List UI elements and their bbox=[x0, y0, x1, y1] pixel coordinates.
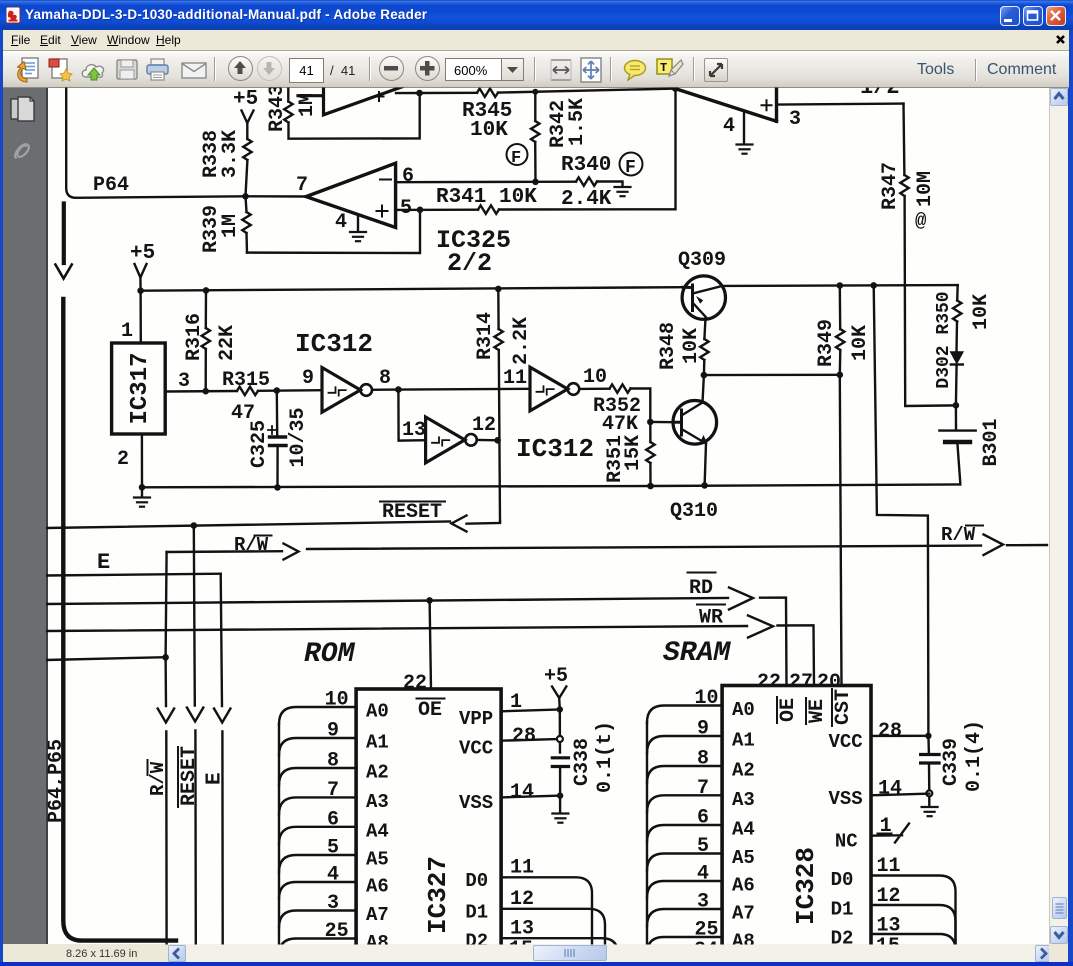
wire RESET line + arrow left bbox=[46, 522, 450, 529]
svg-text:VPP: VPP bbox=[459, 708, 493, 730]
svg-text:R315: R315 bbox=[222, 369, 270, 392]
svg-text:IC312: IC312 bbox=[295, 329, 373, 359]
svg-text:R343: R343 bbox=[266, 84, 289, 132]
wire pin 8 A2 IC328 bbox=[647, 766, 722, 783]
svg-text:P64: P64 bbox=[93, 174, 129, 197]
node CST rotated bbox=[832, 689, 855, 726]
svg-text:0.1(4): 0.1(4) bbox=[963, 720, 986, 792]
svg-text:7: 7 bbox=[327, 779, 339, 802]
svg-text:+5: +5 bbox=[130, 242, 155, 265]
battery B301 bbox=[955, 405, 957, 428]
svg-text:0.1(t): 0.1(t) bbox=[594, 721, 617, 793]
wire collector bus right bbox=[725, 284, 958, 287]
svg-text:D2: D2 bbox=[831, 928, 854, 950]
svg-text:F: F bbox=[625, 158, 636, 178]
svg-text:ROM: ROM bbox=[304, 639, 356, 670]
svg-text:6: 6 bbox=[402, 165, 414, 188]
svg-text:A1: A1 bbox=[366, 732, 389, 754]
node F circle 2 bbox=[620, 153, 643, 176]
wire P64 vertical entry from top bbox=[66, 87, 76, 198]
node junction vertex bbox=[672, 85, 679, 92]
svg-text:3: 3 bbox=[178, 370, 190, 393]
svg-text:A7: A7 bbox=[732, 903, 755, 925]
svg-text:4: 4 bbox=[327, 864, 339, 887]
node junction bbox=[416, 90, 423, 97]
wire Q310 collector junction bbox=[701, 372, 708, 379]
svg-text:A4: A4 bbox=[366, 820, 389, 842]
wire OE drop IC327 bbox=[430, 600, 431, 689]
ground R340 bbox=[615, 187, 631, 196]
svg-text:IC317: IC317 bbox=[127, 352, 154, 424]
svg-text:+5: +5 bbox=[233, 88, 258, 111]
svg-text:1: 1 bbox=[121, 320, 133, 343]
wire CST drop bbox=[840, 375, 842, 686]
svg-text:A5: A5 bbox=[732, 847, 755, 869]
svg-text:24: 24 bbox=[694, 939, 718, 962]
resistor R349 bbox=[839, 286, 842, 330]
svg-text:R316: R316 bbox=[183, 313, 206, 361]
resistor R339 bbox=[242, 193, 249, 200]
svg-text:7: 7 bbox=[296, 174, 308, 197]
svg-text:A6: A6 bbox=[366, 876, 389, 898]
svg-text:A2: A2 bbox=[366, 762, 389, 784]
svg-text:10K: 10K bbox=[470, 119, 508, 142]
svg-text:RESET: RESET bbox=[382, 501, 442, 524]
svg-text:R348: R348 bbox=[657, 322, 680, 370]
svg-text:WR: WR bbox=[699, 607, 723, 630]
svg-text:2/2: 2/2 bbox=[447, 249, 492, 278]
svg-text:D1: D1 bbox=[465, 901, 488, 923]
svg-text:4: 4 bbox=[697, 863, 709, 886]
svg-text:A4: A4 bbox=[732, 819, 755, 841]
svg-text:OE: OE bbox=[777, 698, 800, 722]
svg-text:B301: B301 bbox=[980, 418, 1003, 466]
wire pin 8 A2 IC327 bbox=[279, 768, 356, 785]
svg-text:8: 8 bbox=[697, 748, 709, 771]
wire pin 10 A0 IC328 bbox=[647, 706, 722, 723]
svg-text:VSS: VSS bbox=[459, 792, 493, 814]
svg-text:10: 10 bbox=[583, 366, 607, 389]
wire thick arrow stub bbox=[62, 204, 66, 264]
svg-text:D302 R350: D302 R350 bbox=[934, 291, 954, 388]
svg-text:A2: A2 bbox=[732, 760, 755, 782]
svg-text:1.5K: 1.5K bbox=[566, 98, 589, 146]
svg-text:5: 5 bbox=[697, 835, 709, 858]
ground C338 bbox=[552, 814, 568, 823]
svg-text:Q310: Q310 bbox=[670, 500, 718, 523]
wire pin 10 A0 IC327 bbox=[279, 707, 356, 724]
wire pin 6 A4 IC328 bbox=[647, 825, 722, 842]
node F circle 1 bbox=[507, 144, 528, 165]
svg-text:A0: A0 bbox=[366, 701, 389, 723]
resistor R314 bbox=[497, 289, 500, 329]
resistor R343 bbox=[287, 87, 289, 102]
svg-text:R/W: R/W bbox=[941, 524, 976, 546]
diode D302 bbox=[951, 352, 963, 363]
wire pin 9 A1 IC328 bbox=[647, 736, 722, 753]
svg-text:15K: 15K bbox=[622, 435, 645, 471]
svg-text:10K: 10K bbox=[849, 325, 872, 361]
svg-text:WE: WE bbox=[806, 699, 829, 723]
horizontal scrollbar bbox=[3, 944, 1049, 962]
resistor R341 bbox=[396, 208, 478, 211]
wire pin 25 A8 IC327 bbox=[279, 939, 356, 956]
wire pin6 bbox=[396, 181, 536, 184]
svg-text:RESET: RESET bbox=[178, 746, 201, 806]
svg-text:10: 10 bbox=[695, 687, 719, 710]
resistor R352 bbox=[579, 388, 609, 391]
svg-text:RD: RD bbox=[689, 577, 713, 600]
wire gate1 out bbox=[372, 389, 530, 390]
ground C339 bbox=[922, 807, 938, 816]
svg-text:C325: C325 bbox=[248, 420, 271, 468]
svg-text:15: 15 bbox=[876, 935, 900, 958]
svg-text:3.3K: 3.3K bbox=[219, 130, 242, 178]
svg-text:A7: A7 bbox=[366, 904, 389, 926]
inverter gate IC312a pins 9/8 bbox=[322, 368, 360, 413]
wire +5 bus horizontal bbox=[141, 287, 683, 291]
wire Q310 base bbox=[647, 419, 654, 426]
svg-text:+5: +5 bbox=[544, 665, 568, 688]
svg-text:VCC: VCC bbox=[459, 738, 493, 760]
svg-text:NC: NC bbox=[835, 831, 858, 853]
svg-text:5: 5 bbox=[400, 197, 412, 220]
wire gate2 out bbox=[477, 439, 498, 442]
wire feedback to pin5 bbox=[247, 210, 420, 253]
wire ROM address bus bbox=[278, 724, 280, 944]
resistor R342 bbox=[532, 89, 538, 95]
svg-text:D1: D1 bbox=[831, 899, 854, 921]
wire bottom stub line bbox=[46, 657, 166, 660]
svg-text:Q309: Q309 bbox=[678, 249, 726, 272]
svg-text:3: 3 bbox=[327, 892, 339, 915]
svg-text:9: 9 bbox=[697, 718, 709, 741]
svg-text:28: 28 bbox=[878, 720, 902, 743]
wire pin 7 A3 IC328 bbox=[647, 795, 722, 812]
wire pin 5 A5 IC327 bbox=[279, 855, 356, 872]
resistor R316 bbox=[205, 290, 208, 328]
svg-text:A1: A1 bbox=[732, 730, 755, 752]
svg-text:12: 12 bbox=[472, 414, 496, 437]
svg-text:3: 3 bbox=[789, 108, 801, 131]
ground IC325 pin4 bbox=[350, 232, 366, 241]
wire pin 6 A4 IC327 bbox=[279, 827, 356, 844]
node OE rotated bbox=[777, 697, 800, 723]
svg-text:2: 2 bbox=[117, 448, 129, 471]
svg-text:27: 27 bbox=[789, 671, 813, 694]
svg-text:A8: A8 bbox=[366, 932, 389, 954]
svg-text:@: @ bbox=[915, 210, 927, 232]
wire to gate2 input bbox=[398, 390, 425, 441]
svg-text:12: 12 bbox=[510, 888, 534, 911]
svg-text:A8: A8 bbox=[732, 931, 755, 953]
title bar bbox=[0, 0, 1073, 30]
wire RD line bbox=[46, 598, 728, 604]
svg-text:7: 7 bbox=[697, 777, 709, 800]
svg-text:A3: A3 bbox=[366, 791, 389, 813]
svg-text:10: 10 bbox=[325, 689, 349, 712]
svg-text:D0: D0 bbox=[831, 869, 854, 891]
svg-text:1/2: 1/2 bbox=[860, 75, 900, 100]
svg-text:10K: 10K bbox=[970, 294, 993, 330]
wire pin 4 A6 IC327 bbox=[279, 882, 356, 899]
resistor R350 bbox=[956, 285, 959, 300]
svg-text:R341 10K: R341 10K bbox=[436, 186, 537, 209]
IC U-IC328 SRAM box bbox=[722, 686, 871, 951]
resistor R347 bbox=[902, 104, 905, 175]
ground op-amp pin4 bbox=[737, 145, 753, 154]
svg-text:R314: R314 bbox=[474, 312, 497, 360]
svg-text:1M: 1M bbox=[219, 214, 242, 238]
wire P64 horizontal bbox=[76, 196, 306, 198]
svg-text:22K: 22K bbox=[216, 325, 239, 361]
wire P64/P65 thick bus left bbox=[63, 299, 176, 941]
node WE rotated bbox=[806, 698, 829, 724]
svg-text:14: 14 bbox=[510, 781, 534, 804]
wire E vertical down bbox=[221, 574, 222, 706]
wire output top op-amp bbox=[396, 92, 420, 94]
svg-text:10K: 10K bbox=[680, 328, 703, 364]
IC U-IC327 ROM box bbox=[356, 689, 501, 951]
capacitor C338 bbox=[552, 758, 568, 767]
wire pin 3 A7 IC327 bbox=[279, 911, 356, 928]
svg-text:3: 3 bbox=[697, 891, 709, 914]
menu bar bbox=[3, 30, 1069, 51]
svg-text:P64,P65: P64,P65 bbox=[45, 739, 68, 823]
svg-text:R347: R347 bbox=[879, 162, 902, 210]
op-amp U-top partial bbox=[298, 87, 403, 115]
svg-text:25: 25 bbox=[325, 920, 349, 943]
svg-text:4: 4 bbox=[335, 211, 347, 234]
svg-text:C338: C338 bbox=[571, 738, 594, 786]
svg-text:8: 8 bbox=[379, 367, 391, 390]
resistor R340 bbox=[536, 180, 577, 183]
svg-text:IC327: IC327 bbox=[423, 856, 453, 934]
svg-text:R/W: R/W bbox=[234, 534, 269, 556]
svg-text:A6: A6 bbox=[732, 875, 755, 897]
svg-text:13: 13 bbox=[402, 419, 426, 442]
svg-text:9: 9 bbox=[302, 367, 314, 390]
svg-text:22: 22 bbox=[403, 672, 427, 695]
svg-text:SRAM: SRAM bbox=[663, 638, 731, 669]
svg-text:5: 5 bbox=[327, 837, 339, 860]
op-amp U-right partial 1/2 bbox=[675, 86, 776, 121]
svg-text:R340: R340 bbox=[561, 154, 611, 177]
svg-text:E: E bbox=[204, 772, 227, 785]
wire pin 9 A1 IC327 bbox=[279, 738, 356, 755]
svg-text:VCC: VCC bbox=[829, 731, 863, 753]
wire WR line bbox=[46, 626, 747, 631]
svg-text:OE: OE bbox=[418, 699, 442, 722]
svg-text:2.4K: 2.4K bbox=[561, 188, 612, 211]
node arrow down P64 bbox=[55, 265, 71, 279]
svg-text:IC328: IC328 bbox=[791, 847, 821, 925]
svg-text:14: 14 bbox=[878, 778, 902, 801]
svg-text:28: 28 bbox=[512, 725, 536, 748]
svg-text:11: 11 bbox=[503, 367, 527, 390]
svg-text:10/35: 10/35 bbox=[287, 407, 310, 467]
resistor R338 bbox=[246, 123, 248, 139]
svg-text:9: 9 bbox=[327, 720, 339, 743]
op-amp IC325 bbox=[306, 163, 396, 227]
svg-text:D2: D2 bbox=[465, 931, 488, 953]
wire emitter/ground long line bbox=[142, 484, 960, 487]
svg-text:6: 6 bbox=[327, 808, 339, 831]
svg-text:D0: D0 bbox=[465, 870, 488, 892]
svg-text:15: 15 bbox=[509, 938, 533, 961]
inverter gate IC312b pins 13/12 bbox=[426, 417, 465, 463]
svg-text:A5: A5 bbox=[366, 849, 389, 871]
resistor R351 bbox=[649, 422, 652, 442]
wire pin 5 A5 IC328 bbox=[647, 854, 722, 871]
ground IC317 pin2 bbox=[134, 498, 150, 507]
resistor R348 bbox=[704, 318, 705, 339]
svg-text:4: 4 bbox=[723, 115, 735, 138]
wire R/W vertical down bbox=[166, 552, 167, 706]
wire RESET vertical down bbox=[194, 526, 195, 706]
wire pin 25 A8 IC328 bbox=[647, 937, 722, 954]
svg-text:10M: 10M bbox=[914, 171, 937, 207]
svg-text:VSS: VSS bbox=[829, 788, 863, 810]
node R/W rotated label bbox=[147, 760, 169, 796]
resistor R345 bbox=[420, 92, 478, 95]
inverter gate IC312c pins 11/10 bbox=[530, 367, 568, 411]
svg-text:R/W: R/W bbox=[147, 761, 169, 796]
wire pin 3 A7 IC328 bbox=[647, 909, 722, 926]
wire pin 7 A3 IC327 bbox=[279, 797, 356, 814]
capacitor C325 bbox=[276, 391, 279, 488]
sidebar bbox=[3, 88, 48, 944]
vertical scrollbar bbox=[1049, 88, 1068, 944]
node P64,P65 rotated label bbox=[45, 739, 68, 823]
svg-text:R349: R349 bbox=[815, 319, 838, 367]
wire pin 4 A6 IC328 bbox=[647, 881, 722, 898]
svg-text:11: 11 bbox=[510, 857, 534, 880]
svg-text:IC312: IC312 bbox=[516, 434, 594, 464]
node RESET rotated label bbox=[178, 746, 201, 807]
svg-text:CST: CST bbox=[832, 689, 855, 725]
node E rotated label bbox=[204, 772, 227, 785]
svg-text:47K: 47K bbox=[602, 413, 638, 436]
IC317 box bbox=[112, 343, 166, 434]
toolbar bbox=[3, 51, 1069, 88]
svg-text:A0: A0 bbox=[732, 699, 755, 721]
wire right riser to VCC bbox=[874, 285, 929, 735]
svg-text:A3: A3 bbox=[732, 789, 755, 811]
wire pin1 IC317 bbox=[139, 291, 142, 343]
svg-text:6: 6 bbox=[697, 807, 709, 830]
svg-text:E: E bbox=[97, 550, 110, 575]
svg-text:F: F bbox=[511, 149, 521, 168]
svg-text:C339: C339 bbox=[940, 738, 963, 786]
svg-text:2.2K: 2.2K bbox=[510, 317, 533, 365]
svg-text:22: 22 bbox=[757, 671, 781, 694]
svg-text:8: 8 bbox=[327, 750, 339, 773]
wire SRAM address bus bbox=[646, 722, 648, 944]
capacitor C339 bbox=[927, 736, 930, 753]
wire R/W long to right bbox=[307, 546, 981, 549]
